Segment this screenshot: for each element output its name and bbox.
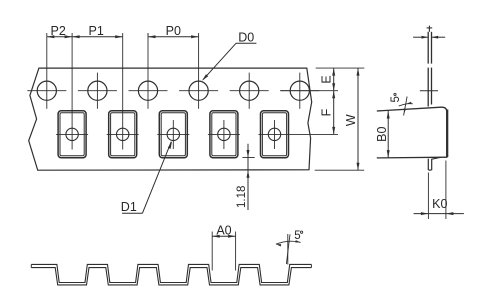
pocket 5 (top view) [261,111,289,158]
5 degree draft angle (cross-section) [287,234,289,265]
sprocket hole 4 [189,81,208,100]
svg-text:F: F [320,108,334,116]
svg-text:K0: K0 [432,197,447,211]
sprocket hole 2 [88,81,107,100]
dimension E [333,68,335,91]
dimension P0 [148,36,199,38]
sprocket hole tick (side view) [420,90,438,92]
dimension K0 [427,173,429,220]
tape cross-section profile (lower surface) [31,268,311,285]
sprocket hole 6 [290,81,309,100]
tape strip edge-on (side view) [427,32,429,64]
tape thickness label t [428,26,430,32]
svg-text:W: W [344,114,358,126]
pocket 3 (top view) [159,111,187,158]
svg-text:P1: P1 [89,24,104,38]
extension lines for E F W [316,67,365,69]
tape tab below pocket (side view) [428,157,440,170]
dimension B0 [387,111,389,158]
tape thickness dimension arrows [413,36,428,38]
dimension 1.18 (pocket edge to tape edge) [247,144,249,210]
svg-text:5: 5 [294,230,300,242]
svg-text:B0: B0 [375,127,389,142]
svg-text:D0: D0 [238,30,254,44]
dimension P1 [72,36,123,38]
svg-text:E: E [320,75,334,83]
sprocket hole 3 [138,81,157,100]
svg-text:5: 5 [390,96,402,102]
dimension P2 [47,36,72,38]
tape cross-section profile (upper surface) [31,264,311,282]
svg-text:1.18: 1.18 [236,186,248,208]
svg-text:D1: D1 [121,200,137,214]
tape outline (top view, jagged break edges) [29,68,312,170]
dimension A0 (pocket opening width) [211,232,213,271]
pocket 4 (top view) [210,111,238,158]
svg-text:P2: P2 [51,24,66,38]
svg-text:P0: P0 [166,24,181,38]
svg-text:A0: A0 [216,223,231,237]
pocket section (side view) [377,107,447,156]
sprocket hole 5 [240,81,259,100]
tape cross-section end caps [30,264,32,267]
pocket 2 (top view) [109,111,137,158]
pocket 1 (top view) [58,111,86,158]
dimension W [357,68,359,170]
dimension F [333,91,335,135]
sprocket hole 1 [37,81,56,100]
